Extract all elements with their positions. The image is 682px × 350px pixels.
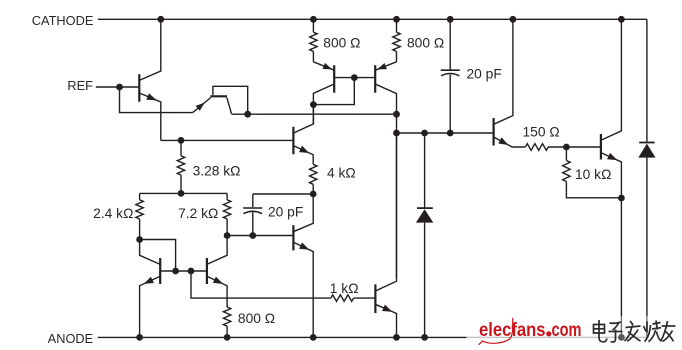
- svg-text:10 kΩ: 10 kΩ: [575, 167, 611, 182]
- wire base link down-left: [313, 78, 354, 105]
- node dot Q5 base - R3: [178, 137, 185, 144]
- svg-text:800 Ω: 800 Ω: [238, 311, 275, 326]
- node dot Q1 collector cathode: [157, 16, 164, 23]
- node dot Q11 collector cathode: [618, 16, 625, 23]
- transistor Q11 base bar: [600, 134, 602, 160]
- wire C2 top lead: [449, 19, 451, 70]
- node dot R4 bottom: [136, 236, 143, 243]
- transistor Q2 base bar: [210, 95, 227, 97]
- transistor Q2 emitter: [193, 98, 211, 113]
- wire REF lead: [96, 86, 140, 88]
- wire Q3-Q4 base link: [334, 77, 375, 79]
- node dot C1 bottom: [249, 232, 256, 239]
- transistor Q3 base bar: [333, 65, 335, 93]
- wire C2 bottom lead: [449, 74, 451, 133]
- transistor Q5 emitter arrow: [299, 146, 309, 153]
- wire anode bottom rail: [98, 336, 647, 338]
- svg-text:20 pF: 20 pF: [467, 66, 502, 81]
- wire R2 top lead: [396, 19, 398, 32]
- watermark logo dot: [546, 331, 551, 336]
- wire REF down to Q2 emitter: [120, 87, 193, 113]
- node dot mirror collector: [310, 101, 317, 108]
- node dot R5 bottom: [224, 232, 231, 239]
- resistor R10 10kohm: [563, 161, 570, 182]
- node dot C2 bottom: [447, 130, 454, 137]
- watermark logo flourish: [479, 318, 513, 345]
- transistor Q10 collector: [494, 19, 513, 124]
- transistor Q1 base bar: [138, 74, 140, 102]
- svg-text:REF: REF: [67, 78, 93, 93]
- wire D2 bottom lead: [646, 158, 648, 338]
- transistor Q6 emitter arrow: [299, 242, 309, 249]
- svg-text:20 pF: 20 pF: [268, 204, 303, 219]
- wire R2 bottom lead: [396, 51, 398, 61]
- transistor Q9 collector: [375, 133, 396, 291]
- node dot Q7 emitter anode: [136, 334, 143, 341]
- capacitor C1 curved plate: [244, 211, 262, 213]
- transistor Q1 emitter arrow: [146, 93, 156, 100]
- resistor R5 7.2kohm: [223, 200, 230, 219]
- transistor Q2 collector: [227, 97, 232, 114]
- wire R4 bottom to base link: [140, 240, 176, 272]
- resistor R4 2.4kohm: [136, 200, 143, 219]
- node dot C2 top: [447, 16, 454, 23]
- transistor Q7 emitter arrow: [144, 277, 154, 284]
- transistor Q6 base bar: [292, 225, 294, 250]
- wire Q7-Q8 base link: [160, 270, 207, 272]
- resistor R9 150ohm: [525, 144, 548, 151]
- transistor Q11 collector: [601, 19, 622, 140]
- capacitor C2 curved plate: [441, 74, 459, 76]
- watermark background band: [467, 316, 677, 344]
- resistor R3 3.28kohm: [177, 156, 184, 175]
- transistor Q6 emitter: [293, 242, 313, 337]
- wire C1 to R6 node: [253, 193, 313, 195]
- transistor Q9 emitter: [375, 304, 396, 337]
- wire R1 bottom lead: [312, 51, 314, 61]
- node dot base link right: [188, 268, 195, 275]
- wire R8 bottom lead: [226, 326, 228, 337]
- transistor Q10 emitter arrow: [498, 137, 508, 145]
- svg-text:ANODE: ANODE: [48, 331, 94, 346]
- watermark hanzi you: [661, 321, 676, 342]
- node dot Q4 collector - Q2 wire: [393, 111, 400, 118]
- transistor Q10 base bar: [493, 118, 495, 146]
- wire R5 top lead: [226, 193, 228, 199]
- svg-text:com: com: [552, 319, 582, 341]
- transistor Q7 collector: [140, 240, 161, 265]
- transistor Q11 emitter arrow: [607, 153, 617, 160]
- transistor Q5 base bar: [292, 127, 294, 155]
- node dot Q6 emitter anode: [310, 334, 317, 341]
- resistor R2 800ohm: [393, 32, 400, 51]
- wire cathode top rail: [161, 18, 647, 20]
- transistor Q7 emitter: [140, 276, 161, 337]
- transistor Q2 emitter arrow: [196, 103, 205, 111]
- node dot Q9 emitter anode: [393, 334, 400, 341]
- transistor Q11 emitter: [601, 153, 622, 338]
- svg-text:150 Ω: 150 Ω: [523, 125, 560, 140]
- wire node to Q11 base: [566, 146, 601, 148]
- watermark faded wire Q11: [620, 316, 622, 337]
- node dot R3 bottom: [178, 190, 185, 197]
- wire Q2 base-collector loop: [213, 86, 248, 111]
- diode D1 cathode bar: [417, 207, 433, 209]
- svg-text:3.28 kΩ: 3.28 kΩ: [193, 163, 241, 178]
- diode D2 triangle: [638, 144, 655, 158]
- watermark faded anode rail: [467, 336, 647, 338]
- node dot R8 anode: [224, 334, 231, 341]
- capacitor C2 flat plate: [441, 69, 460, 71]
- wire R3 top lead: [180, 140, 182, 155]
- transistor Q6 collector: [293, 194, 313, 232]
- transistor Q5 collector: [293, 105, 313, 134]
- watermark faded wire D2: [646, 316, 648, 337]
- wire D1 bottom lead: [424, 223, 426, 338]
- node dot D1 anode: [421, 334, 428, 341]
- node dot R10 to Q11 emitter: [618, 195, 625, 202]
- wire R4 bottom lead: [139, 219, 141, 240]
- svg-text:CATHODE: CATHODE: [32, 13, 94, 28]
- wire Q1 emitter to Q5 base: [161, 139, 294, 141]
- svg-text:7.2 kΩ: 7.2 kΩ: [178, 206, 218, 221]
- node dot R6 bottom: [310, 191, 317, 198]
- wire R10 bottom lead: [566, 182, 621, 198]
- svg-text:800 Ω: 800 Ω: [407, 36, 444, 51]
- wire mirror to Q5 collector: [312, 105, 314, 124]
- wire mirror output to Q10 base: [397, 132, 494, 134]
- transistor Q1 emitter: [139, 93, 161, 140]
- transistor Q7 base bar: [159, 258, 161, 284]
- wire R10 top lead: [565, 147, 567, 161]
- node dot D1 top: [421, 130, 428, 137]
- wire Q6 base link: [227, 235, 293, 237]
- wire R9 to node: [548, 146, 566, 148]
- watermark hanzi dian: [594, 320, 607, 342]
- wire R4-R5 top link: [140, 192, 228, 194]
- watermark faded dot Q11 anode: [618, 334, 625, 341]
- wire R4 top lead: [139, 193, 141, 199]
- watermark hanzi fa: [625, 321, 641, 341]
- wire Q2 collector to mirror: [232, 113, 397, 115]
- wire base link to R7: [191, 271, 331, 298]
- node dot cathode-R2: [393, 16, 400, 23]
- diode D2 cathode bar: [639, 142, 655, 144]
- node dot REF junction: [116, 84, 123, 91]
- transistor Q3 emitter: [313, 62, 334, 70]
- watermark hanzi shao: [644, 321, 662, 342]
- node dot base link: [351, 74, 358, 81]
- svg-text:2.4 kΩ: 2.4 kΩ: [93, 206, 133, 221]
- transistor Q8 collector: [207, 236, 227, 265]
- wire R3 bottom lead: [180, 175, 182, 193]
- wire C1 bottom lead: [252, 212, 254, 235]
- svg-text:4 kΩ: 4 kΩ: [327, 165, 356, 180]
- diode D1 triangle: [416, 209, 433, 222]
- node dot Q4 collector - base wire: [393, 130, 400, 137]
- transistor Q8 base bar: [206, 258, 208, 284]
- transistor Q10 emitter: [494, 137, 526, 147]
- node dot R9-R10: [563, 144, 570, 151]
- resistor R1 800ohm: [310, 32, 317, 51]
- resistor R6 4kohm: [310, 164, 317, 184]
- transistor Q9 emitter arrow: [382, 305, 392, 312]
- wire R7 to Q9 base: [354, 297, 376, 299]
- transistor Q5 emitter: [293, 146, 313, 165]
- svg-text:1 kΩ: 1 kΩ: [330, 281, 359, 296]
- node dot Q2 collector junction: [244, 111, 251, 118]
- transistor Q4 emitter: [375, 62, 396, 70]
- node dot base link left: [172, 268, 179, 275]
- transistor Q9 base bar: [374, 284, 376, 313]
- wire D2 top lead: [646, 19, 648, 142]
- transistor Q4 emitter arrow: [377, 63, 387, 69]
- watermark hanzi zi: [609, 322, 623, 342]
- capacitor C1 flat plate: [243, 207, 262, 209]
- wire R1 top lead: [312, 19, 314, 32]
- wire D1 top lead: [424, 133, 426, 208]
- wire R6 bottom lead: [312, 184, 314, 194]
- transistor Q8 emitter arrow: [213, 277, 223, 284]
- node dot Q10 collector cathode: [510, 16, 517, 23]
- wire C1 top lead: [252, 194, 254, 207]
- svg-text:800 Ω: 800 Ω: [323, 36, 360, 51]
- resistor R7 1kohm: [331, 295, 354, 302]
- transistor Q3 collector: [313, 84, 334, 105]
- resistor R8 800ohm: [223, 307, 230, 326]
- transistor Q4 collector: [375, 84, 396, 278]
- node dot cathode-R1: [310, 16, 317, 23]
- transistor Q8 emitter: [207, 276, 227, 307]
- transistor Q1 collector: [139, 19, 161, 80]
- wire CATHODE lead: [98, 18, 161, 20]
- wire R5 bottom lead: [226, 219, 228, 236]
- transistor Q3 emitter arrow: [323, 63, 333, 70]
- transistor Q4 base bar: [374, 65, 376, 93]
